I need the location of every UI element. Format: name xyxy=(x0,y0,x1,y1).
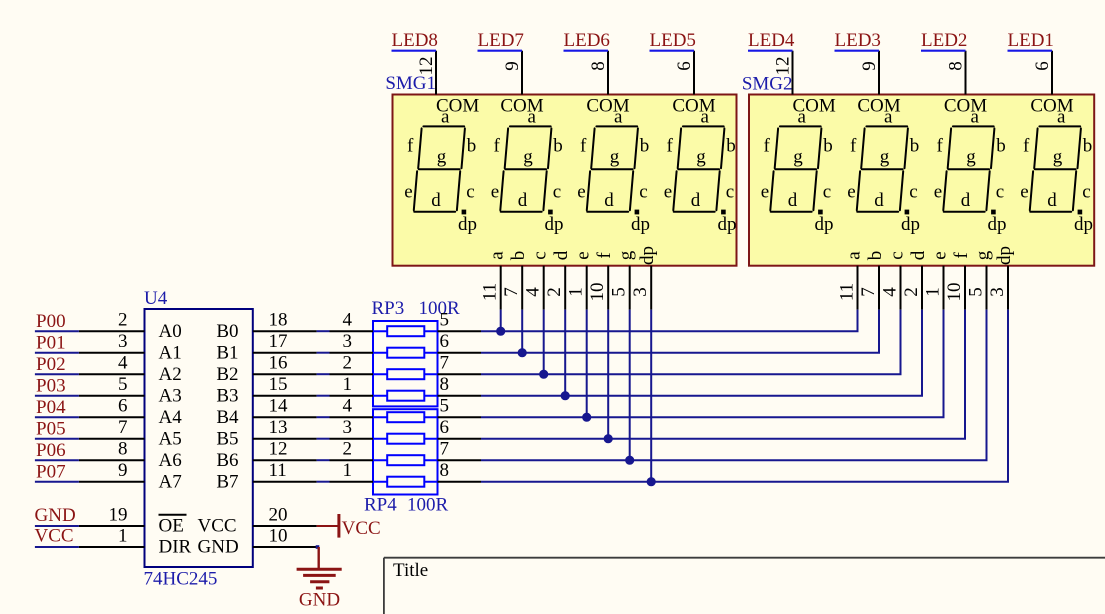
wire U4.11 to RP4.1 xyxy=(317,481,330,483)
power port VCC at U4 pin 20 xyxy=(317,525,339,527)
svg-text:11: 11 xyxy=(269,460,287,481)
SMG2 pin 10 (f) xyxy=(964,266,966,310)
svg-text:c: c xyxy=(1082,182,1090,203)
svg-text:d: d xyxy=(551,250,572,260)
junction net d at SMG1 pin xyxy=(561,391,570,400)
svg-text:4: 4 xyxy=(118,353,128,374)
svg-text:a: a xyxy=(527,106,536,127)
svg-text:e: e xyxy=(847,182,855,203)
junction net g at SMG1 pin xyxy=(625,456,634,465)
svg-text:g: g xyxy=(880,146,890,167)
SMG1 pin 7 (b) xyxy=(521,266,523,310)
junction net b at SMG1 pin xyxy=(518,348,527,357)
SMG1 pin 8 (COM) digit 3 xyxy=(607,51,609,95)
svg-text:g: g xyxy=(616,250,637,260)
svg-text:2: 2 xyxy=(343,353,353,374)
svg-text:b: b xyxy=(640,135,650,156)
svg-text:e: e xyxy=(1020,182,1028,203)
wire U4.12 to RP4.2 xyxy=(317,459,330,461)
svg-text:f: f xyxy=(407,135,414,156)
U4 pin 20 (VCC) xyxy=(253,525,317,527)
svg-text:LED6: LED6 xyxy=(564,30,610,51)
svg-text:f: f xyxy=(951,252,972,259)
svg-text:LED7: LED7 xyxy=(478,30,524,51)
SMG1 pin 12 (COM) digit 1 xyxy=(435,51,437,95)
svg-text:74HC245: 74HC245 xyxy=(144,569,218,590)
svg-text:6: 6 xyxy=(118,396,128,417)
svg-text:e: e xyxy=(573,251,594,259)
svg-text:g: g xyxy=(973,250,994,260)
U4 pin 17 (B1) xyxy=(253,352,317,354)
wire net LED5 xyxy=(650,50,695,52)
svg-text:a: a xyxy=(487,251,508,260)
wire net b: RP3.6 to SMG2.b xyxy=(438,352,482,354)
svg-text:LED1: LED1 xyxy=(1008,30,1054,51)
display SMG2 body xyxy=(749,95,1094,266)
wire net LED2 xyxy=(921,50,966,52)
ground symbol GND at U4 pin 10 xyxy=(316,545,320,549)
svg-text:e: e xyxy=(491,182,499,203)
svg-text:c: c xyxy=(909,182,917,203)
svg-text:11: 11 xyxy=(837,283,858,301)
SMG1 digit 2 seven-segment glyph xyxy=(500,126,551,211)
svg-text:A0: A0 xyxy=(159,321,182,342)
SMG2 pin 5 (g) xyxy=(986,266,988,310)
svg-text:5: 5 xyxy=(609,287,630,297)
SMG1 pin 2 (d) xyxy=(564,266,566,310)
U4 pin 15 (B3) xyxy=(253,395,317,397)
SMG1 pin 11 (a) xyxy=(500,266,502,310)
svg-text:c: c xyxy=(639,182,647,203)
svg-text:g: g xyxy=(523,146,533,167)
svg-text:c: c xyxy=(553,182,561,203)
svg-text:1: 1 xyxy=(343,460,353,481)
SMG2 pin 4 (c) xyxy=(900,266,902,310)
svg-text:8: 8 xyxy=(440,460,450,481)
svg-text:12: 12 xyxy=(269,439,288,460)
svg-text:f: f xyxy=(937,135,944,156)
svg-text:f: f xyxy=(594,252,615,259)
svg-text:LED4: LED4 xyxy=(748,30,795,51)
svg-text:b: b xyxy=(553,135,563,156)
svg-text:20: 20 xyxy=(269,505,288,526)
SMG2 pin 11 (a) xyxy=(857,266,859,310)
svg-text:LED2: LED2 xyxy=(921,30,967,51)
U4 pin 6 (A4) xyxy=(79,416,145,418)
svg-text:f: f xyxy=(1023,135,1030,156)
svg-text:9: 9 xyxy=(859,61,880,71)
SMG2 digit 1 seven-segment glyph xyxy=(770,126,821,211)
svg-text:c: c xyxy=(530,251,551,259)
svg-text:4: 4 xyxy=(343,396,353,417)
svg-text:c: c xyxy=(823,182,831,203)
svg-text:2: 2 xyxy=(544,287,565,297)
svg-text:a: a xyxy=(614,106,623,127)
svg-text:15: 15 xyxy=(269,374,288,395)
wire net f: RP4.6 to SMG2.f xyxy=(438,438,482,440)
title block border xyxy=(384,557,1105,559)
svg-text:e: e xyxy=(664,182,672,203)
svg-text:d: d xyxy=(908,250,929,260)
svg-text:RP4: RP4 xyxy=(364,495,397,516)
wire SMG1 pin e drop to net e xyxy=(586,310,588,418)
svg-text:d: d xyxy=(604,190,614,211)
svg-text:9: 9 xyxy=(502,61,523,71)
svg-text:U4: U4 xyxy=(144,288,168,309)
wire SMG1 pin c drop to net c xyxy=(543,310,545,375)
svg-text:f: f xyxy=(494,135,501,156)
svg-text:GND: GND xyxy=(198,537,239,558)
svg-text:e: e xyxy=(404,182,412,203)
U4 pin 5 (A3) xyxy=(79,395,145,397)
SMG2 pin 6 (COM) digit 4 xyxy=(1051,51,1053,95)
svg-text:c: c xyxy=(996,182,1004,203)
display SMG1 body xyxy=(393,95,737,266)
SMG1 digit 4 seven-segment glyph xyxy=(673,126,724,211)
U4 pin 18 (B0) xyxy=(253,330,317,332)
svg-text:13: 13 xyxy=(269,417,288,438)
svg-text:5: 5 xyxy=(440,310,450,331)
RP3 resistor element row 4 xyxy=(373,395,438,397)
svg-text:COM: COM xyxy=(857,95,900,116)
svg-text:B5: B5 xyxy=(216,429,238,450)
resistor pack RP3 outline xyxy=(373,321,438,406)
svg-text:LED5: LED5 xyxy=(650,30,696,51)
U4 pin 16 (B2) xyxy=(253,373,317,375)
svg-text:dp: dp xyxy=(994,246,1015,265)
junction net c at SMG1 pin xyxy=(539,370,548,379)
svg-text:2: 2 xyxy=(901,287,922,297)
svg-text:LED8: LED8 xyxy=(392,30,438,51)
svg-text:11: 11 xyxy=(480,283,501,301)
U4 pin 9 (A7) xyxy=(79,481,145,483)
wire net LED1 xyxy=(1008,50,1053,52)
SMG2 pin 8 (COM) digit 3 xyxy=(965,51,967,95)
svg-text:10: 10 xyxy=(587,283,608,302)
svg-text:VCC: VCC xyxy=(198,516,237,537)
svg-text:7: 7 xyxy=(501,287,522,297)
svg-text:A3: A3 xyxy=(159,386,182,407)
svg-text:B6: B6 xyxy=(216,450,238,471)
svg-text:17: 17 xyxy=(269,331,288,352)
svg-text:COM: COM xyxy=(586,95,629,116)
wire U4.18 to RP3.4 xyxy=(317,330,330,332)
svg-text:dp: dp xyxy=(631,214,650,235)
svg-text:B1: B1 xyxy=(216,343,238,364)
svg-text:A1: A1 xyxy=(159,343,182,364)
svg-text:OE: OE xyxy=(159,516,184,537)
SMG2 digit 2 seven-segment glyph xyxy=(857,126,908,211)
svg-text:dp: dp xyxy=(458,214,477,235)
wire net P05 xyxy=(35,438,79,440)
svg-text:A6: A6 xyxy=(159,450,182,471)
SMG2 digit 4 seven-segment glyph xyxy=(1030,126,1081,211)
svg-text:a: a xyxy=(1057,106,1066,127)
wire net P02 xyxy=(35,373,79,375)
svg-text:4: 4 xyxy=(523,287,544,297)
svg-text:COM: COM xyxy=(1030,95,1073,116)
svg-text:B3: B3 xyxy=(216,386,238,407)
RP4 resistor element row 8 xyxy=(373,481,438,483)
svg-text:B7: B7 xyxy=(216,472,238,493)
svg-text:P06: P06 xyxy=(36,440,66,461)
svg-text:e: e xyxy=(577,182,585,203)
SMG1 pin 9 (COM) digit 2 xyxy=(521,51,523,95)
wire net g: RP4.7 to SMG2.g xyxy=(438,459,482,461)
junction net a at SMG1 pin xyxy=(496,327,505,336)
svg-text:COM: COM xyxy=(944,95,987,116)
svg-text:a: a xyxy=(797,106,806,127)
U4 pin 14 (B4) xyxy=(253,416,317,418)
svg-text:f: f xyxy=(580,135,587,156)
svg-text:dp: dp xyxy=(1074,214,1093,235)
svg-text:3: 3 xyxy=(987,287,1008,297)
svg-text:A4: A4 xyxy=(159,407,183,428)
svg-text:5: 5 xyxy=(440,396,450,417)
svg-text:7: 7 xyxy=(858,287,879,297)
wire U4.14 to RP4.4 xyxy=(317,416,330,418)
wire U4.15 to RP3.1 xyxy=(317,395,330,397)
RP3 resistor element row 1 xyxy=(373,330,438,332)
svg-text:3: 3 xyxy=(343,331,353,352)
svg-text:SMG2: SMG2 xyxy=(742,74,793,95)
SMG2 pin 9 (COM) digit 2 xyxy=(878,51,880,95)
svg-text:g: g xyxy=(1053,146,1063,167)
svg-text:3: 3 xyxy=(343,417,353,438)
U4 pin 3 (A1) xyxy=(79,352,145,354)
wire net e: RP4.5 to SMG2.e xyxy=(438,416,482,418)
svg-text:12: 12 xyxy=(773,57,794,76)
U4 pin 12 (B6) xyxy=(253,459,317,461)
svg-text:COM: COM xyxy=(672,95,715,116)
svg-text:10: 10 xyxy=(944,283,965,302)
IC U4 74HC245 body xyxy=(145,309,253,567)
svg-text:14: 14 xyxy=(269,396,289,417)
svg-text:d: d xyxy=(691,190,701,211)
svg-text:7: 7 xyxy=(118,417,128,438)
svg-text:b: b xyxy=(910,135,920,156)
svg-text:a: a xyxy=(844,251,865,260)
svg-text:7: 7 xyxy=(440,353,450,374)
wire net VCC (left) xyxy=(35,546,79,548)
U4 pin 11 (B7) xyxy=(253,481,317,483)
junction net e at SMG1 pin xyxy=(582,413,591,422)
SMG2 pin 3 (dp) xyxy=(1007,266,1009,310)
RP4 resistor element row 6 xyxy=(373,438,438,440)
svg-text:b: b xyxy=(726,135,736,156)
svg-text:P05: P05 xyxy=(36,419,66,440)
SMG2 pin 7 (b) xyxy=(878,266,880,310)
svg-text:a: a xyxy=(700,106,709,127)
SMG1 digit 3 seven-segment glyph xyxy=(587,126,638,211)
wire net P07 xyxy=(35,481,79,483)
svg-text:RP3: RP3 xyxy=(372,298,405,319)
SMG1 pin 10 (f) xyxy=(607,266,609,310)
svg-text:5: 5 xyxy=(966,287,987,297)
wire U4.17 to RP3.3 xyxy=(317,352,330,354)
svg-text:b: b xyxy=(508,251,529,261)
wire SMG1 pin d drop to net d xyxy=(564,310,566,396)
svg-text:dp: dp xyxy=(637,246,658,265)
svg-text:dp: dp xyxy=(815,214,834,235)
SMG1 pin 6 (COM) digit 4 xyxy=(693,51,695,95)
svg-text:b: b xyxy=(1083,135,1093,156)
svg-text:A7: A7 xyxy=(159,472,182,493)
svg-text:5: 5 xyxy=(118,374,128,395)
svg-text:f: f xyxy=(850,135,857,156)
svg-text:GND: GND xyxy=(35,505,76,526)
U4 pin 8 (A6) xyxy=(79,459,145,461)
svg-text:VCC: VCC xyxy=(35,525,74,546)
wire net P06 xyxy=(35,459,79,461)
svg-text:P07: P07 xyxy=(36,462,66,483)
svg-text:16: 16 xyxy=(269,353,288,374)
wire SMG1 pin f drop to net f xyxy=(607,310,609,439)
svg-text:g: g xyxy=(966,146,976,167)
svg-text:g: g xyxy=(610,146,620,167)
svg-text:dp: dp xyxy=(545,214,564,235)
wire net dp: RP4.8 to SMG2.dp xyxy=(438,481,482,483)
svg-text:2: 2 xyxy=(343,439,353,460)
svg-text:dp: dp xyxy=(718,214,737,235)
resistor pack RP4 outline xyxy=(373,409,438,494)
svg-text:GND: GND xyxy=(299,590,340,611)
svg-text:A2: A2 xyxy=(159,364,182,385)
SMG2 pin 1 (e) xyxy=(943,266,945,310)
svg-text:B0: B0 xyxy=(216,321,238,342)
wire net LED8 xyxy=(392,50,437,52)
RP4 resistor element row 5 xyxy=(373,416,438,418)
U4 pin 7 (A5) xyxy=(79,438,145,440)
svg-text:8: 8 xyxy=(440,374,450,395)
svg-text:a: a xyxy=(441,106,450,127)
wire net LED3 xyxy=(835,50,880,52)
svg-text:B4: B4 xyxy=(216,407,239,428)
svg-text:b: b xyxy=(467,135,477,156)
svg-text:9: 9 xyxy=(118,460,128,481)
svg-text:g: g xyxy=(793,146,803,167)
svg-text:6: 6 xyxy=(674,61,695,71)
svg-text:6: 6 xyxy=(1032,61,1053,71)
svg-text:b: b xyxy=(996,135,1006,156)
wire net LED6 xyxy=(564,50,609,52)
svg-text:8: 8 xyxy=(946,61,967,71)
SMG2 pin 12 (COM) digit 1 xyxy=(792,51,794,95)
svg-text:2: 2 xyxy=(118,310,128,331)
junction net f at SMG1 pin xyxy=(604,434,613,443)
svg-text:g: g xyxy=(696,146,706,167)
wire net P00 xyxy=(35,330,79,332)
svg-text:P03: P03 xyxy=(36,376,66,397)
SMG1 digit 1 seven-segment glyph xyxy=(414,126,465,211)
svg-text:f: f xyxy=(667,135,674,156)
svg-text:7: 7 xyxy=(440,439,450,460)
wire net P03 xyxy=(35,395,79,397)
svg-text:4: 4 xyxy=(880,287,901,297)
SMG1 pin 1 (e) xyxy=(586,266,588,310)
U4 pin 10 (GND) xyxy=(253,546,318,548)
wire net d: RP3.8 to SMG2.d xyxy=(438,395,482,397)
svg-text:DIR: DIR xyxy=(159,537,192,558)
svg-text:100R: 100R xyxy=(407,495,449,516)
wire net c: RP3.7 to SMG2.c xyxy=(438,373,482,375)
wire SMG1 pin dp drop to net dp xyxy=(650,310,652,482)
svg-text:P04: P04 xyxy=(36,397,66,418)
svg-text:c: c xyxy=(466,182,474,203)
U4 pin 19 (OE, active low) xyxy=(79,525,145,527)
svg-text:LED3: LED3 xyxy=(835,30,881,51)
svg-text:f: f xyxy=(764,135,771,156)
svg-text:b: b xyxy=(865,251,886,261)
wire SMG1 pin a drop to net a xyxy=(500,310,502,332)
svg-text:1: 1 xyxy=(566,287,587,297)
wire net LED7 xyxy=(478,50,523,52)
RP4 resistor element row 7 xyxy=(373,459,438,461)
U4 pin 2 (A0) xyxy=(79,330,145,332)
wire net GND (left) xyxy=(35,525,79,527)
svg-text:3: 3 xyxy=(118,331,128,352)
svg-text:b: b xyxy=(823,135,833,156)
svg-text:e: e xyxy=(761,182,769,203)
wire net LED4 xyxy=(748,50,793,52)
wire U4.16 to RP3.2 xyxy=(317,373,330,375)
svg-text:c: c xyxy=(887,251,908,259)
svg-text:dp: dp xyxy=(901,214,920,235)
svg-text:1: 1 xyxy=(343,374,353,395)
svg-text:d: d xyxy=(961,190,971,211)
svg-text:d: d xyxy=(1047,190,1057,211)
junction net dp at SMG1 pin xyxy=(647,477,656,486)
svg-text:P01: P01 xyxy=(36,333,66,354)
svg-text:19: 19 xyxy=(109,505,128,526)
svg-text:dp: dp xyxy=(988,214,1007,235)
svg-text:d: d xyxy=(788,190,798,211)
svg-text:10: 10 xyxy=(269,526,288,547)
svg-text:g: g xyxy=(437,146,447,167)
RP3 resistor element row 3 xyxy=(373,373,438,375)
SMG2 pin 2 (d) xyxy=(921,266,923,310)
svg-text:VCC: VCC xyxy=(342,518,381,539)
SMG2 digit 3 seven-segment glyph xyxy=(943,126,994,211)
wire SMG1 pin b drop to net b xyxy=(521,310,523,353)
wire net a: RP3.5 to SMG2.a xyxy=(438,330,482,332)
svg-text:a: a xyxy=(884,106,893,127)
wire net P01 xyxy=(35,352,79,354)
svg-text:1: 1 xyxy=(923,287,944,297)
SMG1 pin 4 (c) xyxy=(543,266,545,310)
svg-text:18: 18 xyxy=(269,310,288,331)
SMG1 pin 5 (g) xyxy=(629,266,631,310)
svg-text:P00: P00 xyxy=(36,311,66,332)
svg-text:12: 12 xyxy=(416,57,437,76)
wire net P04 xyxy=(35,416,79,418)
svg-text:8: 8 xyxy=(588,61,609,71)
svg-text:1: 1 xyxy=(118,526,128,547)
svg-text:e: e xyxy=(934,182,942,203)
svg-text:4: 4 xyxy=(343,310,353,331)
svg-text:d: d xyxy=(431,190,441,211)
svg-text:B2: B2 xyxy=(216,364,238,385)
svg-text:6: 6 xyxy=(440,331,450,352)
U4 pin 13 (B5) xyxy=(253,438,317,440)
svg-text:d: d xyxy=(874,190,884,211)
svg-text:COM: COM xyxy=(500,95,543,116)
U4 pin 4 (A2) xyxy=(79,373,145,375)
svg-text:3: 3 xyxy=(630,287,651,297)
U4 pin 1 (DIR) xyxy=(79,546,145,548)
svg-text:Title: Title xyxy=(393,560,428,581)
svg-text:8: 8 xyxy=(118,439,128,460)
